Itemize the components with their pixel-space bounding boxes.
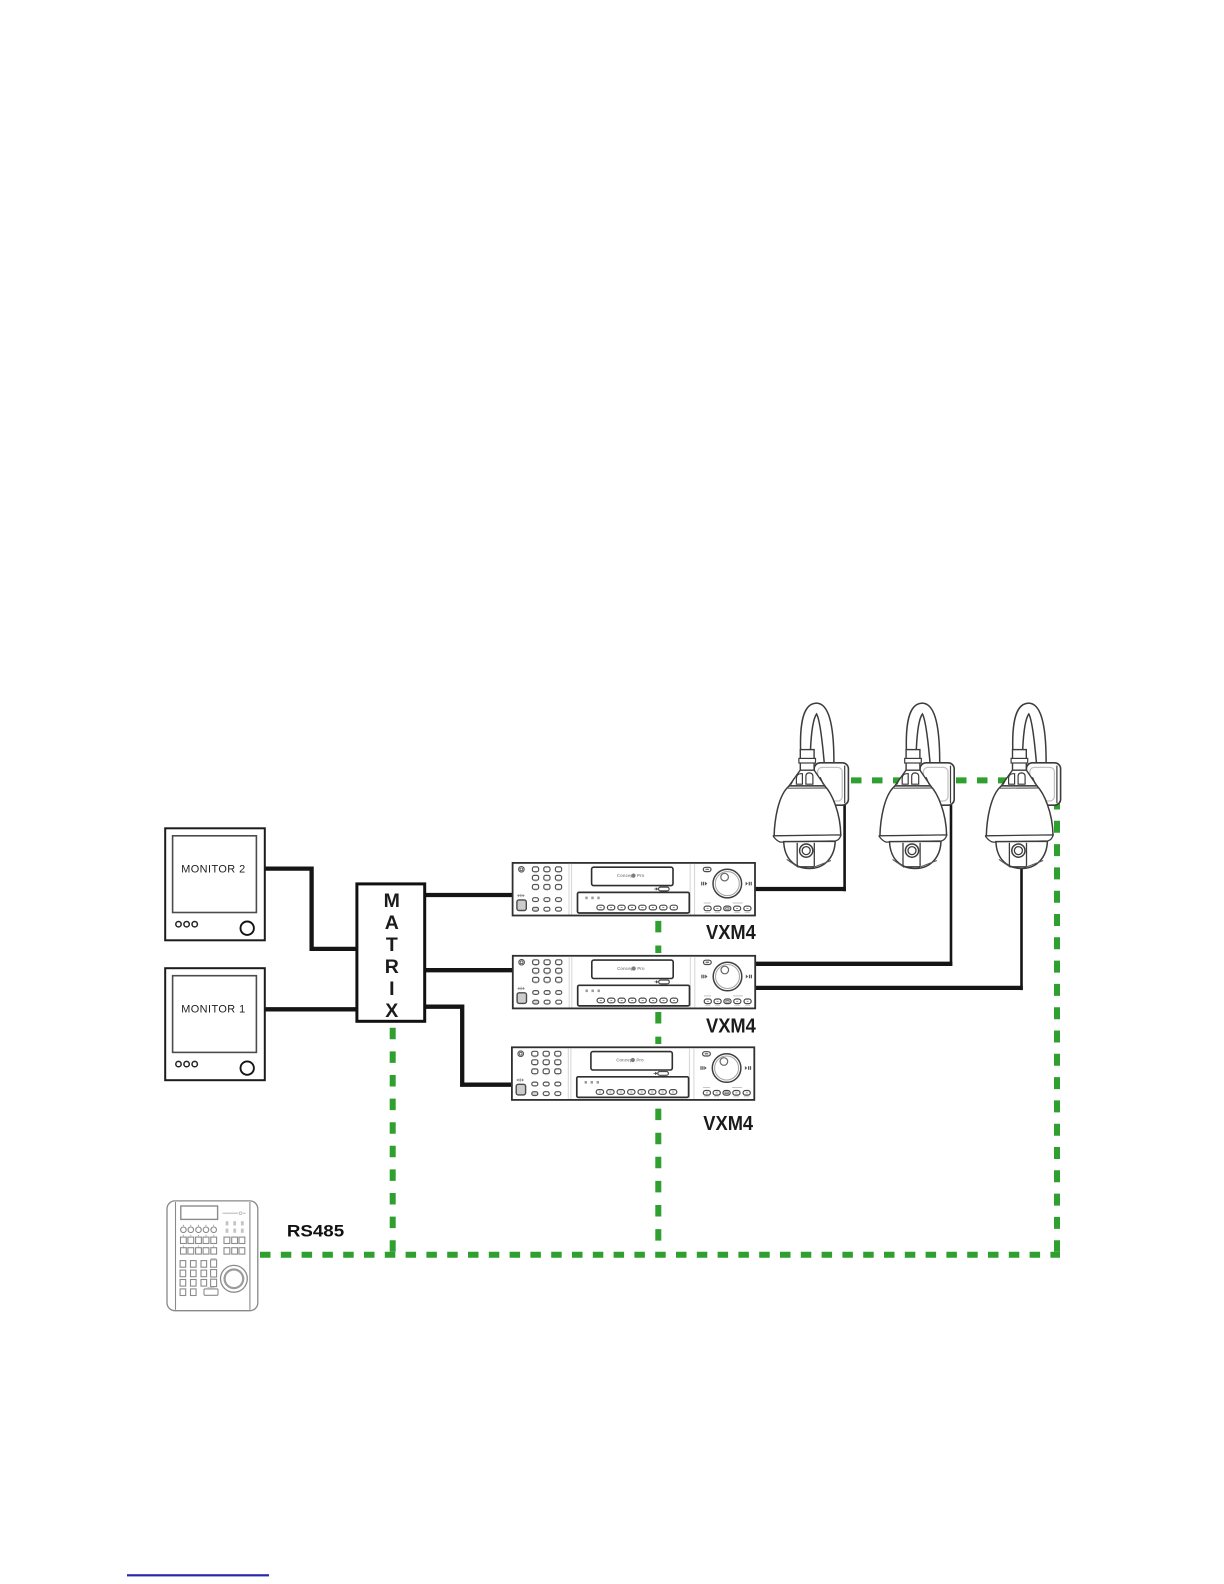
keyboard key row 2 (181, 1248, 245, 1254)
svg-text:MONITOR 1: MONITOR 1 (181, 1004, 245, 1016)
keyboard indicator marks (226, 1221, 244, 1233)
RS485 green dashed bus: middle vertical segment unit1-unit2 (655, 921, 661, 953)
svg-text:VXM4: VXM4 (706, 1015, 756, 1038)
wire camera1 to VXM4 unit1 (755, 887, 846, 891)
svg-text:T: T (386, 934, 398, 956)
VXM4 unit 2 (513, 956, 755, 1009)
matrix box (357, 884, 425, 1021)
svg-text:I: I (389, 978, 394, 1000)
wire camera2 drop cable (950, 805, 953, 966)
RS485 green dashed bus: vertical from matrix (390, 1028, 396, 1252)
camera 3 (986, 703, 1061, 868)
keyboard key row 1 (181, 1237, 245, 1243)
svg-text:R: R (385, 956, 399, 978)
wire matrix to VXM4 unit1 (426, 893, 513, 897)
keyboard body (167, 1201, 258, 1311)
wire monitor2 to matrix (265, 869, 357, 949)
wire camera3 drop cable (1020, 867, 1023, 991)
camera 1 (773, 703, 848, 868)
matrix label (384, 890, 400, 1022)
keyboard controller (167, 1201, 258, 1311)
svg-text:RS485: RS485 (287, 1222, 344, 1241)
wire camera2 to VXM4 unit2 (755, 962, 953, 966)
RS485 green dashed bus: middle vertical segment unit3-bus (655, 1109, 661, 1252)
svg-text:VXM4: VXM4 (703, 1112, 753, 1135)
keyboard numpad (180, 1260, 218, 1296)
keyboard knob row (181, 1227, 217, 1233)
keyboard joystick (221, 1265, 248, 1292)
wire monitor1 to matrix (265, 1007, 357, 1011)
svg-text:X: X (385, 1000, 398, 1022)
wire camera1 drop cable (843, 803, 846, 891)
keyboard logo (223, 1213, 239, 1214)
footer blue line (127, 1574, 269, 1576)
monitor 1 (165, 968, 265, 1080)
svg-text:VXM4: VXM4 (706, 921, 756, 944)
svg-text:M: M (384, 890, 400, 912)
RS485 green dashed bus: right vertical (1054, 798, 1060, 1252)
svg-text:A: A (385, 912, 399, 934)
VXM4 unit 3 (512, 1047, 754, 1100)
RS485 green dashed bus: bottom horizontal (260, 1252, 1060, 1258)
wire camera3 to VXM4 unit2 (755, 986, 1023, 990)
VXM4 unit 1 (513, 863, 755, 916)
wire matrix to VXM4 unit3 (426, 1007, 513, 1085)
RS485 green dashed bus: middle vertical segment unit2-unit3 (655, 1012, 661, 1044)
monitor 2 (165, 828, 265, 940)
RS485 green dashed bus: camera top link (830, 777, 1057, 783)
svg-text:MONITOR 2: MONITOR 2 (181, 864, 245, 876)
wire matrix to VXM4 unit2 (426, 968, 513, 972)
keyboard LCD (181, 1206, 218, 1219)
camera 2 (879, 703, 954, 868)
